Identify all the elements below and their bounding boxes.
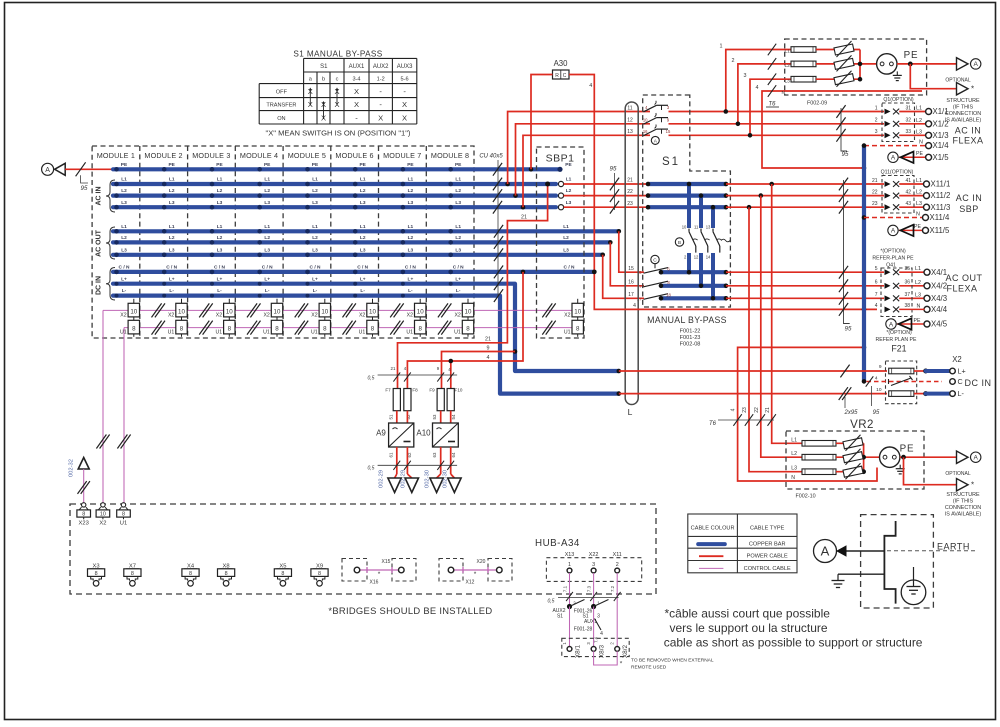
svg-text:10: 10: [226, 308, 233, 315]
svg-text:L2: L2: [916, 190, 922, 196]
svg-text:X11/5: X11/5: [930, 226, 950, 235]
svg-text:2: 2: [616, 562, 619, 568]
cable marks and labels 4/23/22/21: [709, 407, 776, 427]
svg-text:c: c: [336, 76, 339, 82]
svg-text:R: R: [555, 73, 559, 79]
svg-text:36: 36: [904, 280, 910, 286]
svg-text:2: 2: [732, 58, 735, 64]
svg-text:b: b: [322, 76, 325, 82]
wire PE feed to module bus: [65, 162, 113, 192]
svg-text:N: N: [919, 139, 923, 145]
svg-text:PE: PE: [312, 162, 319, 168]
converter A10: [416, 411, 458, 447]
svg-text:L1: L1: [121, 224, 127, 230]
switch S1 contacts B group: [675, 224, 730, 259]
svg-text:10: 10: [100, 512, 106, 518]
svg-text:A: A: [821, 544, 830, 559]
svg-text:C / N: C / N: [310, 265, 321, 271]
svg-text:SBP: SBP: [959, 204, 979, 214]
svg-text:X20: X20: [477, 559, 486, 565]
note cable as short as possible: [664, 607, 923, 650]
svg-text:L1: L1: [455, 224, 461, 230]
svg-text:L+: L+: [958, 367, 966, 376]
varistor T6 L1: [834, 41, 854, 57]
svg-text:L3: L3: [312, 200, 318, 206]
connectors X2/U1 module 2: [168, 299, 188, 337]
varistor VR2 L2: [843, 449, 863, 465]
svg-text:X4/4: X4/4: [931, 305, 948, 314]
svg-text:002-32: 002-32: [69, 459, 75, 477]
svg-text:L3: L3: [791, 466, 797, 472]
svg-text:L-: L-: [408, 288, 413, 294]
svg-text:7.1: 7.1: [563, 585, 568, 592]
svg-text:37: 37: [904, 292, 910, 298]
svg-text:8: 8: [132, 326, 136, 333]
svg-text:10: 10: [369, 308, 376, 315]
terminal X11/5 (PE): [888, 224, 950, 236]
labels SBP1 AC OUT / C N: [563, 224, 575, 270]
wires L+/L- to F21: [619, 365, 887, 400]
svg-text:IS AVAILABLE): IS AVAILABLE): [945, 118, 982, 124]
svg-text:L-: L-: [169, 288, 174, 294]
svg-text:AC OUT: AC OUT: [96, 229, 103, 257]
contactor Q41 (OPTION): [872, 249, 914, 317]
connectors X2/U1 SBP1: [564, 299, 584, 337]
svg-text:B: B: [678, 240, 681, 246]
svg-text:X2: X2: [564, 312, 570, 318]
module 1 label: [97, 151, 135, 160]
bus bars S1 21/22/23: [646, 182, 729, 228]
svg-text:FLEXA: FLEXA: [952, 136, 983, 146]
svg-text:L1: L1: [264, 224, 270, 230]
svg-text:13: 13: [627, 129, 633, 135]
svg-text:L2: L2: [408, 188, 414, 194]
svg-text:L1: L1: [785, 49, 791, 55]
filter T6 (F002-09) enclosure: [766, 39, 927, 108]
svg-text:L1: L1: [360, 177, 366, 183]
svg-text:7: 7: [875, 292, 878, 298]
svg-text:41: 41: [905, 178, 911, 184]
svg-text:5: 5: [875, 266, 878, 272]
wire 13/3 (phase L3 control row): [523, 135, 926, 207]
varistor T6 L3: [834, 71, 854, 87]
svg-text:STRUCTURE: STRUCTURE: [946, 492, 980, 498]
cable marks 95 on wires 21/22/23: [610, 166, 620, 214]
svg-text:X2: X2: [168, 312, 174, 318]
svg-text:1: 1: [568, 562, 571, 568]
svg-text:POWER CABLE: POWER CABLE: [747, 554, 788, 560]
svg-text:21: 21: [521, 215, 527, 221]
wire T6 varistors to socket: [816, 50, 876, 82]
svg-text:F001-28: F001-28: [574, 627, 593, 633]
wires A9/A10 outputs: [368, 447, 458, 478]
svg-text:95: 95: [842, 151, 849, 158]
svg-text:002-29: 002-29: [379, 470, 385, 488]
svg-text:L3: L3: [455, 200, 461, 206]
fuse T6 L1: [791, 47, 816, 53]
svg-text:L1: L1: [408, 177, 414, 183]
svg-text:TRANSFER: TRANSFER: [266, 103, 296, 109]
svg-text:PE: PE: [359, 162, 366, 168]
arrow 002-32 input: [69, 458, 90, 503]
svg-text:MODULE 8: MODULE 8: [431, 151, 469, 160]
svg-text:C: C: [958, 377, 963, 386]
varistor VR2 L1: [843, 435, 863, 451]
svg-text:T6: T6: [709, 421, 717, 427]
connector X3: [88, 564, 105, 587]
svg-text:10: 10: [682, 224, 687, 229]
svg-text:CONNECTION: CONNECTION: [945, 505, 981, 511]
svg-text:10: 10: [876, 387, 882, 393]
svg-text:L+: L+: [169, 276, 175, 282]
svg-text:L3: L3: [916, 129, 922, 135]
fuse F7: [385, 388, 400, 420]
svg-text:L2: L2: [408, 235, 414, 241]
svg-text:14: 14: [706, 254, 711, 259]
svg-text:8: 8: [95, 571, 98, 577]
switch AUX1 S1: [570, 600, 609, 647]
svg-text:PE: PE: [914, 318, 921, 324]
label AC OUT with brace: [96, 227, 116, 259]
svg-text:CONTROL CABLE: CONTROL CABLE: [744, 566, 791, 572]
svg-text:MANUAL BY-PASS: MANUAL BY-PASS: [647, 315, 727, 325]
switch S1 contacts 11/12/13: [643, 101, 671, 145]
svg-text:U1: U1: [454, 330, 461, 336]
svg-text:L2: L2: [916, 118, 922, 124]
connector X7: [124, 564, 141, 587]
svg-text:*: *: [971, 85, 974, 94]
svg-text:S1: S1: [662, 156, 680, 168]
label AC IN SBP: [956, 193, 983, 214]
svg-text:S1: S1: [320, 64, 328, 70]
svg-text:35: 35: [904, 266, 910, 272]
svg-text:0,5: 0,5: [548, 599, 555, 605]
node A flag (AC IN feed): [42, 163, 66, 175]
svg-text:PE: PE: [904, 50, 919, 61]
connector X9: [311, 564, 328, 587]
svg-text:L+: L+: [455, 276, 461, 282]
bus bar C/N (DC IN): [113, 265, 597, 275]
svg-text:MODULE 6: MODULE 6: [335, 151, 373, 160]
svg-text:L3: L3: [916, 201, 922, 207]
svg-text:95: 95: [81, 185, 88, 192]
svg-text:MODULE 2: MODULE 2: [144, 151, 182, 160]
svg-text:X2: X2: [407, 312, 413, 318]
svg-text:C / N: C / N: [119, 265, 130, 271]
svg-text:X2: X2: [311, 312, 317, 318]
connector X8: [218, 564, 235, 587]
terminal X1/4 (N, dashed): [864, 139, 949, 150]
svg-text:3: 3: [597, 614, 600, 620]
svg-text:16: 16: [628, 279, 634, 285]
svg-text:54: 54: [451, 414, 456, 419]
wires 21/22/23 S1 to Q11: [726, 182, 926, 210]
svg-text:C / N: C / N: [453, 265, 464, 271]
svg-text:002-29: 002-29: [401, 470, 407, 488]
bridge X15/X16: [342, 559, 416, 586]
label AC OUT FLEXA: [945, 273, 982, 294]
module 3 label: [192, 151, 230, 160]
svg-text:X11: X11: [613, 552, 622, 558]
svg-text:L+: L+: [408, 276, 414, 282]
wire 3 T6 L3 row: [744, 73, 792, 138]
control cable U1 bus: [124, 327, 572, 329]
terminals X1/1-X1/3: [916, 106, 949, 140]
svg-text:X8/1: X8/1: [575, 644, 582, 658]
svg-text:10: 10: [417, 308, 424, 315]
svg-text:64: 64: [451, 452, 456, 457]
svg-text:X: X: [402, 113, 407, 122]
svg-text:A10: A10: [416, 429, 431, 438]
svg-text:L1: L1: [217, 177, 223, 183]
connectors X2/U1 module 5: [311, 299, 331, 337]
svg-text:COPPER BAR: COPPER BAR: [749, 542, 786, 548]
svg-text:43: 43: [905, 201, 911, 207]
svg-text:L1: L1: [360, 224, 366, 230]
svg-text:C / N: C / N: [405, 265, 416, 271]
svg-text:11: 11: [694, 224, 699, 229]
connector X2 (hub): [96, 503, 110, 527]
svg-text:15: 15: [628, 266, 634, 272]
svg-text:OFF: OFF: [276, 89, 288, 95]
svg-text:U1: U1: [215, 330, 222, 336]
svg-text:L2: L2: [360, 235, 366, 241]
svg-text:X11/3: X11/3: [931, 203, 951, 212]
svg-text:12: 12: [627, 118, 633, 124]
svg-text:7.3: 7.3: [587, 585, 592, 592]
svg-text:REFER PLAN PE: REFER PLAN PE: [876, 337, 917, 343]
svg-text:L3: L3: [566, 200, 572, 206]
svg-text:L3: L3: [785, 78, 791, 84]
terminals X2 L+/C/L-: [923, 355, 991, 398]
svg-text:L1: L1: [563, 224, 569, 230]
svg-text:2: 2: [875, 118, 878, 124]
fuse T6 L3: [791, 76, 816, 82]
svg-text:4: 4: [633, 303, 636, 309]
svg-text:A30: A30: [554, 59, 569, 68]
svg-text:N: N: [917, 303, 921, 309]
bus bar L1 (AC OUT): [113, 224, 621, 234]
wires AC OUT to S1 rows 15/16/17: [603, 231, 644, 298]
svg-text:L1: L1: [121, 177, 127, 183]
svg-text:U1: U1: [564, 330, 571, 336]
svg-text:EARTH: EARTH: [937, 542, 970, 552]
svg-text:vers le support ou la structur: vers le support ou la structure: [670, 621, 828, 635]
svg-text:L2: L2: [455, 188, 461, 194]
flag optional structure (top right): [910, 64, 981, 124]
svg-text:A: A: [889, 321, 894, 328]
svg-text:4: 4: [756, 85, 759, 91]
svg-text:S1: S1: [557, 614, 563, 620]
svg-text:8: 8: [576, 326, 580, 333]
svg-text:L3: L3: [264, 200, 270, 206]
contactor Q1 (OPTION): [875, 97, 915, 142]
svg-text:L2: L2: [360, 188, 366, 194]
svg-text:6: 6: [875, 280, 878, 286]
svg-text:F8: F8: [412, 388, 418, 393]
svg-text:22: 22: [754, 407, 760, 413]
module 2 label: [144, 151, 182, 160]
svg-text:N: N: [916, 211, 920, 217]
svg-text:L2: L2: [455, 235, 461, 241]
svg-text:L2: L2: [264, 235, 270, 241]
svg-text:PE: PE: [916, 151, 923, 157]
svg-text:A: A: [891, 228, 896, 235]
wire 2 T6 L2 row: [732, 58, 792, 126]
svg-text:AC IN: AC IN: [956, 193, 983, 203]
svg-text:X2: X2: [952, 355, 962, 364]
svg-text:L2: L2: [312, 188, 318, 194]
svg-text:PE: PE: [264, 162, 271, 168]
fuse VR2 L1: [802, 441, 836, 447]
svg-text:X2: X2: [216, 312, 222, 318]
svg-text:*(OPTION): *(OPTION): [886, 330, 912, 336]
connectors X2/U1 module 7: [406, 299, 426, 337]
fuse F21: [866, 330, 942, 404]
svg-text:63: 63: [432, 452, 437, 457]
svg-text:X1/3: X1/3: [933, 131, 949, 140]
svg-text:MODULE 3: MODULE 3: [192, 151, 230, 160]
wire 22 to VR2 L2: [761, 196, 802, 458]
labels 2x95 and 95: [843, 386, 880, 416]
module 8 label: [431, 151, 469, 160]
bus bar L2 (AC OUT): [113, 235, 613, 245]
svg-text:U1: U1: [311, 330, 318, 336]
svg-text:32: 32: [905, 118, 911, 124]
svg-text:X: X: [354, 100, 359, 109]
svg-text:L-: L-: [217, 288, 222, 294]
svg-text:U1: U1: [168, 330, 175, 336]
labels 0,5 and wire tags A9/A10: [368, 366, 458, 382]
svg-text:U1: U1: [406, 330, 413, 336]
module 6 label: [335, 151, 373, 160]
svg-text:L+: L+: [312, 276, 318, 282]
svg-text:X2: X2: [359, 312, 365, 318]
svg-text:95: 95: [610, 166, 617, 173]
svg-text:L1: L1: [916, 178, 922, 184]
svg-text:X22: X22: [589, 552, 599, 558]
svg-text:X1/1: X1/1: [933, 107, 949, 116]
svg-text:"X" MEAN SWITGH IS ON (POSITIO: "X" MEAN SWITGH IS ON (POSITION "1"): [266, 129, 411, 138]
svg-text:AC IN: AC IN: [96, 186, 103, 205]
svg-text:3: 3: [592, 562, 595, 568]
svg-text:13: 13: [706, 224, 711, 229]
wires VR2 to socket: [836, 443, 880, 474]
wire A30 to N (wire 4): [569, 75, 877, 312]
terminals X11/1-X11/3: [916, 178, 950, 212]
svg-text:CABLE COLOUR: CABLE COLOUR: [691, 526, 735, 532]
wire 21 to VR2 L1: [772, 184, 802, 443]
svg-text:8: 8: [418, 326, 422, 333]
svg-text:10: 10: [574, 308, 581, 315]
switch S1 enclosure: [643, 95, 731, 307]
fuse F9: [429, 388, 444, 420]
svg-text:L2: L2: [217, 188, 223, 194]
terminals SBP1 L1-L3: [558, 177, 571, 210]
svg-text:L2: L2: [169, 235, 175, 241]
svg-text:A9: A9: [376, 429, 386, 438]
svg-text:L3: L3: [217, 200, 223, 206]
svg-text:REFER-PLAN PE: REFER-PLAN PE: [872, 256, 914, 262]
control cable drop to X2 connector: [96, 310, 109, 502]
terminals X8/1 X8/3 X8/2: [562, 638, 629, 658]
svg-text:95: 95: [873, 410, 880, 416]
svg-text:C: C: [563, 73, 567, 79]
switch S1 contacts 15/16/17: [637, 255, 672, 301]
svg-text:L3: L3: [915, 292, 921, 298]
flag optional structure (VR2): [904, 457, 982, 517]
svg-text:8: 8: [82, 512, 85, 518]
label CU 40x5 with cable marks: [479, 154, 527, 303]
svg-text:L3: L3: [563, 248, 569, 254]
svg-text:L2: L2: [785, 63, 791, 69]
svg-text:L2: L2: [217, 235, 223, 241]
svg-text:PE: PE: [216, 162, 223, 168]
svg-text:L2: L2: [121, 235, 127, 241]
svg-text:L3: L3: [121, 200, 127, 206]
svg-text:REMOTE USED: REMOTE USED: [631, 665, 667, 671]
wire 4 T6 N row: [756, 85, 923, 170]
svg-text:L3: L3: [408, 247, 414, 253]
earth structure symbol: [814, 515, 976, 608]
svg-text:L3: L3: [360, 247, 366, 253]
svg-text:X4/5: X4/5: [931, 320, 948, 329]
connector X5: [274, 564, 291, 587]
svg-text:002-30: 002-30: [443, 470, 449, 488]
svg-text:3: 3: [744, 73, 747, 79]
wire 11/1 (phase L1 control row): [508, 112, 927, 185]
svg-text:L1: L1: [312, 177, 318, 183]
socket PE T6: [877, 54, 902, 81]
svg-text:ON: ON: [277, 116, 285, 122]
svg-text:AC IN: AC IN: [955, 126, 982, 136]
svg-text:F002-08: F002-08: [680, 342, 701, 348]
arrow 002-29 (A9 out 61): [379, 470, 402, 493]
svg-text:TO BE REMOVED WHEN EXTERNAL: TO BE REMOVED WHEN EXTERNAL: [631, 658, 714, 664]
svg-text:15: 15: [666, 129, 671, 134]
svg-text:10: 10: [130, 308, 137, 315]
fuse F10: [447, 388, 463, 420]
table S1 MANUAL BY-PASS: [259, 50, 417, 138]
socket PE VR2: [880, 447, 905, 474]
svg-text:U1: U1: [263, 330, 270, 336]
svg-text:X1/5: X1/5: [933, 153, 950, 162]
svg-text:9: 9: [487, 345, 490, 351]
connector X23: [77, 503, 91, 527]
svg-text:F10: F10: [455, 388, 463, 393]
svg-text:*: *: [971, 481, 974, 490]
svg-text:X2: X2: [99, 521, 106, 527]
label DC IN with brace: [96, 268, 116, 301]
svg-text:L2: L2: [264, 188, 270, 194]
svg-text:51: 51: [388, 414, 393, 419]
svg-text:21: 21: [872, 178, 878, 184]
svg-text:L1: L1: [169, 177, 175, 183]
terminal X1/5 (PE): [888, 151, 949, 163]
connectors X2/U1 module 1: [120, 299, 140, 337]
svg-text:4: 4: [731, 408, 737, 411]
svg-text:*câble aussi court que possibl: *câble aussi court que possible: [665, 607, 831, 621]
svg-text:L+: L+: [264, 276, 270, 282]
svg-text:L3: L3: [169, 200, 175, 206]
svg-text:F002-09: F002-09: [807, 101, 827, 107]
svg-text:X8/3: X8/3: [599, 644, 606, 658]
svg-text:X2: X2: [263, 312, 269, 318]
svg-text:Q11(OPTION): Q11(OPTION): [881, 169, 914, 175]
svg-text:21: 21: [391, 366, 396, 371]
svg-text:12: 12: [694, 254, 699, 259]
surge protector VR2 enclosure: [786, 419, 924, 500]
